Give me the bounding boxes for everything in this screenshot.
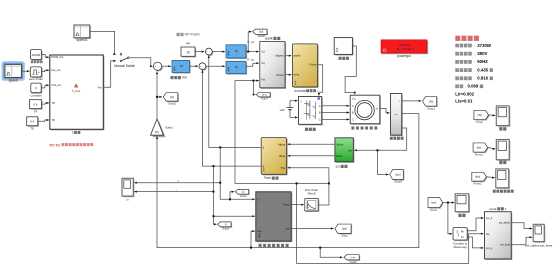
wire Park d -> Sum2 bottom with branch to d/q display + observer U + Goto4 [134,55,261,200]
svg-text::: : [474,44,475,48]
goto tag Goto4 [u] [235,189,249,198]
block speed (signal builder, selected) [3,62,24,82]
wire Vdc+ -> inverter + [290,100,298,102]
goto tag Goto8 [ud] [253,29,268,38]
svg-text:m: m [376,108,378,111]
svg-text:[psi]: [psi] [342,228,347,231]
svg-text:Kin: Kin [182,76,187,80]
svg-text:TD: TD [51,118,55,122]
signal label P_ud [247,40,254,44]
svg-text:Uds_rev: Uds_rev [51,83,62,87]
wire From[Te] -> torque scope [489,114,496,116]
block flux and position observer (gray) [256,192,292,247]
svg-text:-: - [300,116,301,120]
svg-text:psi_beta: psi_beta [500,243,510,247]
wire Zero-Order -> S-function Fre_set [42,69,49,72]
svg-text:10000: 10000 [32,53,41,57]
goto tag Goto1 [Te] [423,97,438,111]
svg-text:TR: TR [34,109,38,113]
svg-text:Park: Park [264,176,271,180]
wire Constant -> S-function Uds_rev [41,84,49,88]
block Park transform (flipped, yellow) [261,138,287,181]
svg-text:1: 1 [505,207,507,211]
svg-text:powergui: powergui [397,54,411,58]
wire From2 -> stator current scope [486,177,494,179]
svg-text:Goto6: Goto6 [350,261,357,264]
svg-text:Ipark: Ipark [490,207,497,211]
wire PI d -> Ipark Vd with branch to Goto8 [246,31,259,53]
svg-text:): ) [317,89,318,93]
svg-text:3/2: 3/2 [335,165,340,169]
block bus selector measurement unit [390,94,404,140]
svg-text:SVPWM(: SVPWM( [294,89,306,93]
wire SVPWM Pulse -> inverter gate g [318,65,323,96]
block constant NP 10 [181,42,196,58]
svg-text:P_ud: P_ud [247,40,254,44]
svg-text:0.435: 0.435 [477,67,488,72]
svg-text:PWM_Fre: PWM_Fre [51,55,64,59]
svg-text:0.069: 0.069 [468,84,479,89]
svg-text:Filter5: Filter5 [308,191,316,195]
svg-text:Zero-Order: Zero-Order [29,77,43,81]
block PI controller q-axis [226,61,247,74]
svg-text:Tm: Tm [352,97,357,101]
wire Ipark Ubeta -> SVPWM beta [285,74,291,76]
svg-text:Goto7: Goto7 [261,98,268,101]
goto tag Goto2 [wr] [163,93,179,106]
svg-text:the: the [486,232,490,236]
svg-text:[ud]: [ud] [259,32,263,34]
svg-text:psi: psi [286,227,290,231]
svg-text:speed1: speed1 [76,38,87,42]
wire Ipark1 psi_alpha -> scope [511,223,532,230]
annotation motor parameter lines [455,43,493,104]
block speed1 (signal builder source) [74,25,91,42]
wire Park q -> Sum3 bottom with branch to display + observer I + Goto5 [134,70,261,225]
block inverter (IGBT bridge) [299,97,323,131]
wire S-function Fre -> Manual Switch lower input [103,60,116,88]
wire 3/2 Alpha -> Park Alpha [288,143,335,145]
wire From1 -> speed scope [488,148,496,151]
signal label P_uq [247,58,254,62]
block powergui (discrete) [381,40,428,58]
goto tag Goto5 [i] [218,222,232,231]
svg-text:10: 10 [186,51,190,55]
svg-text:Fre_set: Fre_set [51,68,60,72]
block Zero-Order Hold [29,67,43,81]
sum junction Sum2 (d-axis) [205,48,213,56]
svg-text:A: A [352,104,354,108]
svg-text:[the]: [the] [262,93,267,96]
svg-text:beta: beta [294,73,300,77]
wire observer Theta -> filter [291,204,304,206]
block SVPWM modulator (yellow) [292,44,318,93]
signal label i [176,187,177,191]
scope speed (zhuan-su) [496,140,510,165]
goto tag Goto3 [abc] [390,170,405,184]
wire bus out1 -> Goto1 [Te] [402,100,422,102]
wire 10000 -> S-function PWM_Fre [42,55,50,59]
wire Ipark1 psi_beta -> scope [511,236,532,245]
svg-text:Ipark: Ipark [265,37,273,41]
wire Sum2 -> PI d-axis [212,51,225,53]
sum junction Sum1 (speed error) [154,62,163,71]
wire Sum1 -> speed PI [162,65,171,67]
wire inverter B -> motor B [322,111,350,113]
wire speed1 -> Manual Switch upper input [90,31,116,55]
block Ipark transform 1 (flux) [485,207,513,260]
svg-text:Goto3: Goto3 [394,180,402,184]
svg-text:0.4: 0.4 [33,102,37,106]
svg-text:Constant: Constant [30,94,41,98]
annotation motor parameters title (red) [455,36,479,41]
svg-text:50HZ: 50HZ [477,59,488,64]
block constant TR 0.4 [30,100,43,114]
wire wm feedback: bus out2 -> Gain1, observer wm, Goto6 [156,114,419,259]
svg-text:Im: Im [461,236,464,239]
block speed PI controller (zhuan-su-huan Kin) [171,60,191,79]
svg-text:S_time: S_time [72,89,81,93]
svg-text:From1: From1 [475,152,484,156]
wire Vdc- -> inverter - [290,116,298,118]
goto tag Goto [psi] [335,224,352,238]
svg-text:Goto2: Goto2 [168,101,176,105]
scope torque (zhuan-ju) [496,106,510,131]
wire TR -> S-function TR [42,102,50,104]
wire 3/2 Beta -> Park Beta [288,155,335,157]
svg-text:[Te]: [Te] [478,113,483,117]
svg-text:Alpha: Alpha [336,142,344,146]
svg-text:Manual Switch: Manual Switch [114,64,135,68]
block First Order Filter5 [305,188,320,212]
wire motor m -> bus selector [380,109,390,115]
wire inverter A -> motor A [322,105,350,107]
wire Ipark Ualpha -> SVPWM alpha [285,55,291,57]
svg-text:psi_alpha: psi_alpha [499,221,511,225]
svg-text:Vdc: Vdc [280,108,286,112]
svg-text:PI: PI [235,50,238,54]
svg-text:380V: 380V [477,51,487,56]
svg-text:Gain1: Gain1 [165,125,173,129]
svg-text:Goto1: Goto1 [427,106,435,110]
svg-text:Goto: Goto [341,234,348,238]
annotation NP = Pset/n note [177,33,201,37]
goto tag Goto6 [wm] [344,255,360,264]
svg-text:Vq: Vq [261,61,265,65]
from tag From1 [wr] [473,143,489,156]
svg-text:Alpha: Alpha [278,142,286,146]
wire speed PI -> Sum3 [190,65,199,67]
wire Manual Switch -> Sum1 [129,58,152,68]
svg-text:Ubeta: Ubeta [276,73,284,77]
wire NP -> Sum2 [195,51,204,53]
svg-text:[Te]: [Te] [429,99,434,103]
signal label u [178,180,180,183]
block S-function ramp generator (S-han-shu) [50,55,105,135]
scope psi_alpha psi_beta [525,224,552,247]
svg-text:Fai: Fai [261,78,265,82]
wire Gain1 -> Sum1 bottom with branch to Goto2 [wr] [156,72,162,120]
block PI controller d-axis [226,45,247,59]
svg-text:C: C [319,118,321,122]
scope flux (ci-lian) [455,194,470,217]
svg-text:wm: wm [257,229,262,233]
wire Complex Re -> Ipark1 psi_d [467,217,483,231]
svg-text:[wr]: [wr] [170,95,174,99]
svg-text:B: B [352,111,354,115]
svg-text:[u]: [u] [242,191,245,193]
wire From3 -> flux scope and to complex block [443,202,455,235]
svg-text:P_uq: P_uq [247,58,254,62]
svg-text:Lis=0.01: Lis=0.01 [455,98,473,103]
svg-text:[wm]: [wm] [351,257,356,259]
svg-text:[psi]: [psi] [432,201,437,204]
svg-text:psi_q: psi_q [486,246,493,250]
svg-text:TR:TD: TR:TD [49,143,60,147]
svg-text:u i: u i [126,198,129,202]
svg-text:[abc]: [abc] [396,174,401,176]
goto tag Goto7 [the] below Ipark [256,92,271,100]
block three-phase asynchronous motor [350,95,381,129]
svg-text:speed: speed [9,79,18,83]
svg-text:Wrp: Wrp [155,131,160,134]
svg-text:Beta: Beta [336,154,342,158]
svg-text:3730W: 3730W [477,43,492,48]
block Ipark transform (dq -> alpha-beta) [260,37,286,89]
svg-text:A: A [319,104,321,108]
svg-text:0.4: 0.4 [30,120,34,124]
svg-text::: : [474,52,475,56]
svg-text:Ts = 5e-05 s.: Ts = 5e-05 s. [397,47,415,51]
svg-text:TR: TR [51,101,55,105]
svg-text:<m:: <m: [394,113,398,116]
wire theta net: filter out -> Park The, Ipark Fai, Goto7, Ipark1 the [235,80,484,264]
block load torque (jia-fu-zai) [334,38,353,60]
svg-text:Goto5: Goto5 [222,228,229,231]
block constant TD 0.4 [27,117,39,131]
sum junction Sum3 (q-axis) [199,63,207,71]
wire TD -> S-function TD [38,119,49,121]
svg-text:iab: iab [349,148,353,152]
block Constant 0 [30,83,42,98]
block constant 10000 (PWM frequency) [31,50,43,64]
svg-text:U: U [257,197,259,201]
svg-text:Goto8: Goto8 [258,35,265,38]
wire Complex Im -> Ipark1 psi_q [467,237,483,249]
svg-text:PI: PI [235,66,238,70]
wire load -> motor Tm [345,46,356,94]
svg-text:psi_alpha,psi_beta: psi_alpha,psi_beta [525,243,552,247]
svg-text:From2: From2 [474,181,483,185]
svg-text:NP: NP [186,42,190,46]
svg-text:alpha: alpha [294,54,301,58]
svg-text:Ualpha: Ualpha [275,54,284,58]
wire speed -> Zero-Order hold [21,70,29,72]
svg-text:S: S [72,131,74,135]
from tag From3 [psi] [428,198,444,212]
svg-text:+: + [300,99,302,103]
svg-text:TD: TD [30,127,34,131]
svg-text:[abc]: [abc] [475,176,481,179]
svg-text:From: From [476,120,483,124]
voltage source Vdc (battery) [280,101,294,118]
svg-text:[wr]: [wr] [477,145,482,149]
annotation red text TR TD ramp-time note [49,143,93,147]
svg-text:Vd: Vd [261,49,265,53]
svg-text:From: From [431,208,438,212]
block Complex to Real-Imag [453,228,468,250]
svg-text:psi_d: psi_d [486,216,493,220]
wire bus out3 -> 3/2 iabc input with branch to Goto3 [abc] [354,128,406,176]
block Manual Switch [114,53,135,68]
block 3/2 transform (green) [335,138,355,169]
from tag From [Te] [474,110,490,123]
svg-text::: : [474,60,475,64]
svg-text:0.816: 0.816 [477,76,488,81]
scope three-phase stator current [493,169,514,193]
svg-text:Theta: Theta [282,203,290,207]
svg-text::: : [474,77,475,81]
wire inverter C -> motor C [322,118,350,120]
wire Sum3 -> PI q-axis [206,65,225,67]
svg-text:The: The [280,166,285,170]
svg-text:Real-Imag: Real-Imag [454,245,467,249]
scope d-q display (u i) [122,178,134,201]
svg-text:Pulse: Pulse [309,63,316,67]
svg-text:PI: PI [180,65,183,69]
svg-text::: : [465,85,466,89]
svg-text:NP=Pset/n: NP=Pset/n [185,33,201,37]
svg-text:Lir=0.002: Lir=0.002 [455,91,474,96]
wire PI q -> Ipark Vq [246,62,259,66]
svg-text:Beta: Beta [279,154,285,158]
svg-text:B: B [319,111,321,115]
wire observer psi -> Goto [psi] [291,227,333,229]
svg-text::: : [474,68,475,72]
svg-text:Goto4: Goto4 [240,195,247,198]
svg-text:Fre: Fre [98,85,103,89]
from tag From2 [abc] [472,172,488,185]
svg-text:C: C [352,117,354,121]
block Gain1 (speed feedback gain, points up) [151,119,174,137]
